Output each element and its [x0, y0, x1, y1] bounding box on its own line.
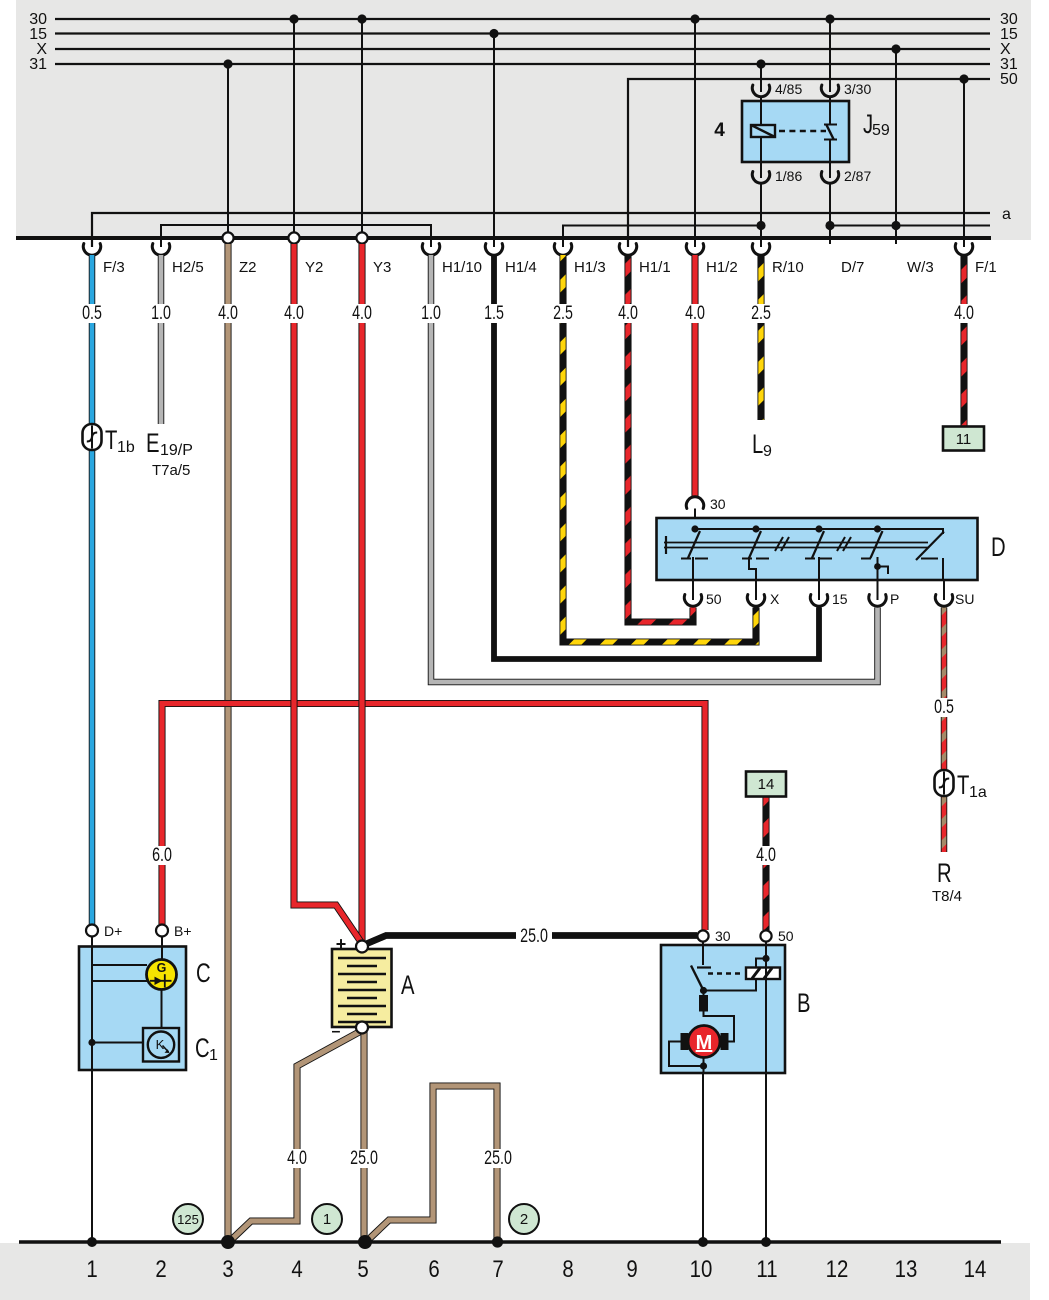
connector H1/4 at harness line — [485, 244, 502, 256]
C internal G to regulator lead — [161, 990, 163, 1029]
label gauge 4.0 at x294 — [281, 304, 308, 323]
D lead to cup P with park hook — [874, 557, 888, 580]
relay pin 3/30 connector — [821, 85, 838, 97]
label gauge 4.0 at x695 — [682, 304, 709, 323]
label gauge 4.0 at x362 — [349, 304, 376, 323]
wire battery - brown 4.0 to ground 3 — [230, 1031, 361, 1241]
svg-text:4.0: 4.0 — [618, 302, 638, 323]
svg-text:31: 31 — [29, 56, 47, 73]
svg-text:Z2: Z2 — [239, 259, 257, 276]
svg-text:T: T — [105, 425, 118, 456]
ground junction track 1 — [87, 1237, 97, 1247]
wire W/3 drop from bus X — [895, 49, 897, 244]
battery A plates — [338, 958, 386, 1022]
svg-text:9: 9 — [763, 443, 772, 460]
connector H1/3 at harness line — [554, 244, 571, 256]
svg-text:D: D — [991, 532, 1006, 563]
D terminal 15 connector — [810, 595, 827, 607]
label gauge 25.0 battery cable — [516, 927, 552, 946]
D detent marks 1 — [775, 537, 789, 551]
battery - terminal — [356, 1022, 368, 1034]
wire H2/5 gray 1.0 — [158, 255, 165, 424]
D contact dashes 50 — [681, 558, 708, 560]
wire H1/2 red 4.0 to D-30 — [691, 255, 698, 497]
svg-text:–: – — [332, 1023, 341, 1040]
D detent marks 2 — [837, 537, 851, 551]
svg-text:4.0: 4.0 — [284, 302, 304, 323]
connector H1/10 at harness line — [422, 244, 439, 256]
svg-text:W/3: W/3 — [907, 259, 934, 276]
wire relay 1/86 down to bus cup — [760, 184, 762, 248]
B internal resistor — [699, 991, 708, 1012]
wire B-50 ground lead — [765, 1073, 767, 1242]
D contact blade P — [871, 531, 883, 558]
svg-text:D/7: D/7 — [841, 259, 864, 276]
connector T1b symbol — [83, 424, 102, 450]
fuse box 11 — [943, 427, 984, 451]
label gauge 6.0 at x162 — [149, 846, 176, 865]
junction 4/85 on 31 — [756, 59, 765, 68]
svg-text:C: C — [196, 958, 211, 989]
svg-text:25.0: 25.0 — [484, 1147, 512, 1168]
svg-text:1: 1 — [323, 1211, 331, 1228]
svg-text:30: 30 — [715, 928, 731, 944]
wire Y3 drop from bus 30 — [361, 19, 363, 234]
svg-text:T: T — [957, 770, 970, 801]
ignition switch D box — [657, 518, 978, 580]
wire H1/3 black/yellow 2.5 to D-X — [563, 255, 756, 642]
B internal 50 to coil — [756, 959, 766, 968]
wire battery + to B-30 black 25.0 — [366, 936, 697, 945]
svg-text:4.0: 4.0 — [954, 302, 974, 323]
label gauge 0.5 at x944 — [931, 698, 958, 717]
svg-text:R: R — [937, 858, 952, 889]
wire D/7 drop from bus 30 to relay 3/30 — [829, 19, 831, 92]
ground junction track 3 — [221, 1235, 235, 1249]
svg-text:13: 13 — [895, 1255, 918, 1282]
svg-text:H1/2: H1/2 — [706, 259, 738, 276]
svg-text:4.0: 4.0 — [756, 844, 776, 865]
D internal supply bus — [695, 529, 943, 534]
B dashed actuator link — [708, 972, 744, 974]
svg-text:4.0: 4.0 — [287, 1147, 307, 1168]
junction H1/4 on 15 — [489, 29, 498, 38]
label E19/P — [146, 428, 193, 459]
D terminal P connector — [869, 595, 886, 607]
wire battery - brown 25.0 to ground 5 — [360, 1032, 367, 1240]
label gauge 2.5 at x761 — [748, 304, 775, 323]
label gauge 4.0 at x228 — [215, 304, 242, 323]
B internal 50 node — [762, 955, 769, 962]
svg-text:1.5: 1.5 — [484, 302, 504, 323]
bus line 31 — [55, 63, 990, 65]
D lead to cup X — [749, 557, 756, 580]
junction W/3 on link — [891, 221, 900, 230]
bus line 15 — [55, 32, 990, 34]
junction D/7 on link — [825, 221, 834, 230]
connector R/10 at harness line — [752, 244, 769, 256]
svg-text:30: 30 — [710, 496, 726, 512]
svg-text:7: 7 — [492, 1255, 503, 1282]
wire 14 to B-50 black/red 4.0 — [762, 796, 769, 930]
svg-text:2: 2 — [520, 1211, 528, 1228]
wire Y2 red 4.0 — [294, 244, 361, 942]
svg-text:+: + — [336, 934, 347, 954]
wire H2/5 to H1/10 link — [161, 225, 431, 247]
svg-text:6.0: 6.0 — [152, 844, 172, 865]
D terminal SU connector — [935, 595, 952, 607]
wire relay 1/86 from box — [760, 162, 762, 178]
svg-text:0.5: 0.5 — [934, 696, 954, 717]
wire relay 3/30 to switch — [829, 97, 831, 102]
C internal B+ lead — [161, 937, 163, 960]
wire B+ to B-30 red 6.0 — [162, 704, 705, 931]
wire relay 4/85 to coil — [760, 97, 762, 102]
wire ground strap brown 25.0 track 5 to 7 — [367, 1086, 497, 1241]
relay J59 coil symbol — [751, 125, 775, 137]
battery + terminal — [356, 941, 368, 953]
B internal switch — [691, 966, 711, 991]
svg-text:M: M — [696, 1032, 713, 1054]
ground rail — [19, 1240, 1001, 1244]
svg-text:2/87: 2/87 — [844, 168, 871, 184]
ground designation 125 — [173, 1204, 203, 1234]
svg-text:50: 50 — [706, 591, 722, 607]
D internal node 15 — [815, 525, 822, 532]
label gauge 1.5 at x494 — [481, 304, 508, 323]
relay pin 4/85 connector — [752, 85, 769, 97]
C internal node — [88, 1039, 95, 1046]
svg-text:25.0: 25.0 — [350, 1147, 378, 1168]
D contact blade X — [749, 531, 761, 558]
terminal Z2 pass-through — [222, 232, 233, 243]
svg-text:E: E — [146, 428, 160, 459]
svg-text:11: 11 — [756, 1255, 777, 1282]
svg-text:1/86: 1/86 — [775, 168, 802, 184]
D contact dashes 15 — [805, 558, 832, 560]
svg-text:H1/10: H1/10 — [442, 259, 482, 276]
junction Z2 on 31 — [223, 59, 232, 68]
svg-text:11: 11 — [956, 431, 972, 448]
main harness line (bottom of gray panel) — [16, 236, 991, 240]
bottom gray band (track number strip) — [0, 1243, 1030, 1300]
relay pin 2/87 connector — [821, 172, 838, 184]
svg-text:125: 125 — [177, 1212, 199, 1227]
svg-text:2: 2 — [155, 1255, 166, 1282]
B internal motor ground lead — [703, 1058, 705, 1074]
wire D/7-W/3 link to right edge — [830, 225, 990, 227]
D mechanical bar — [664, 536, 928, 554]
label gauge 1.0 at x431 — [418, 304, 445, 323]
wire H1/1 red/black 4.0 to D-50 — [628, 255, 693, 622]
wire B motor ground lead — [702, 1073, 704, 1242]
svg-text:X: X — [770, 591, 780, 607]
wire H1/4 black 1.5 to D-15 — [494, 255, 819, 659]
relay J59 switch — [824, 101, 837, 162]
bus line 50 (from H1/1 rise to right edge) — [628, 79, 990, 247]
fuse box 14 — [746, 772, 786, 797]
svg-text:14: 14 — [964, 1255, 987, 1282]
D contact dash P — [861, 558, 871, 560]
D contact blade SU — [916, 532, 944, 561]
junction Y2 on 30 — [289, 14, 298, 23]
C internal branch to G lower — [92, 980, 149, 982]
D terminal 30 connector — [686, 497, 703, 509]
wire H1/2 drop from bus 30 — [694, 19, 696, 247]
svg-text:H1/4: H1/4 — [505, 259, 537, 276]
svg-text:1: 1 — [209, 1047, 218, 1064]
label T1b — [105, 425, 135, 456]
svg-text:4.0: 4.0 — [352, 302, 372, 323]
junction 3/30 on 30 — [825, 14, 834, 23]
svg-text:1.0: 1.0 — [151, 302, 171, 323]
svg-text:L: L — [752, 429, 763, 460]
D terminal X connector — [747, 595, 764, 607]
svg-text:4: 4 — [714, 120, 725, 141]
svg-text:9: 9 — [626, 1255, 637, 1282]
wire Y2 drop from bus 30 — [293, 19, 295, 234]
D terminal 50 connector — [684, 595, 701, 607]
label gauge 4.0 at x628 — [615, 304, 642, 323]
svg-text:2.5: 2.5 — [553, 302, 573, 323]
C internal D+ lead — [91, 937, 93, 1071]
B motor M — [688, 1026, 720, 1058]
connector F/3 at harness line — [83, 244, 100, 256]
svg-text:4.0: 4.0 — [218, 302, 238, 323]
svg-text:14: 14 — [758, 776, 775, 793]
wire F/1 drop from bus 50 — [963, 79, 965, 247]
battery A box — [332, 949, 392, 1027]
B internal 50 lead — [765, 942, 767, 1074]
svg-text:4/85: 4/85 — [775, 81, 802, 97]
junction R/10 on link a' — [756, 221, 765, 230]
svg-text:a: a — [1002, 206, 1011, 223]
svg-text:H1/3: H1/3 — [574, 259, 606, 276]
ground junction track 10 — [698, 1237, 708, 1247]
wire relay 2/87 down past harness line — [829, 184, 831, 245]
svg-text:10: 10 — [690, 1255, 713, 1282]
wire Z2 drop from bus 31 — [227, 64, 229, 234]
D contact blade 15 — [812, 531, 824, 558]
B internal resistor to motor — [704, 1012, 735, 1042]
relay J59 coil wire — [760, 101, 762, 162]
C terminal B+ — [156, 925, 168, 937]
svg-text:12: 12 — [826, 1255, 849, 1282]
label gauge 2.5 at x563 — [550, 304, 577, 323]
svg-text:15: 15 — [832, 591, 848, 607]
svg-text:B+: B+ — [174, 923, 192, 939]
ground junction track 7 — [492, 1236, 503, 1247]
D contact dashes X — [742, 558, 769, 560]
label component C1 — [195, 1033, 218, 1064]
svg-text:C: C — [195, 1033, 210, 1064]
svg-text:K: K — [156, 1037, 165, 1052]
ground junction track 5 — [358, 1235, 372, 1249]
svg-text:3/30: 3/30 — [844, 81, 871, 97]
junction Y3 on 30 — [357, 14, 366, 23]
D internal node 30 — [691, 525, 698, 532]
svg-text:F/3: F/3 — [103, 259, 125, 276]
svg-text:2.5: 2.5 — [751, 302, 771, 323]
label gauge 4.0 at x964 — [951, 304, 978, 323]
relay J59 dashed actuator link — [779, 130, 826, 133]
wire Y3 red 4.0 — [358, 244, 365, 941]
D contact dash SU — [921, 558, 938, 560]
D lead to cup SU — [943, 558, 944, 580]
B terminal 50 — [760, 930, 771, 941]
svg-text:G: G — [157, 961, 167, 975]
svg-text:SU: SU — [955, 591, 974, 607]
alternator C box — [79, 947, 186, 1071]
svg-text:T8/4: T8/4 — [932, 888, 962, 905]
svg-text:1b: 1b — [117, 439, 135, 456]
label gauge 25.0 at x498 — [480, 1149, 516, 1168]
junction W/3 on X — [891, 44, 900, 53]
C internal branch to G upper — [92, 964, 147, 966]
label gauge 4.0 at x766 — [753, 846, 780, 865]
label T1a — [957, 770, 987, 801]
svg-text:1.0: 1.0 — [421, 302, 441, 323]
label gauge 25.0 at x364 — [346, 1149, 382, 1168]
D terminal 30 lead — [694, 509, 696, 519]
bus line a (from F/3 rise to right edge) — [92, 213, 990, 247]
D lead to cup 50 — [692, 557, 694, 580]
svg-text:H2/5: H2/5 — [172, 259, 204, 276]
svg-text:Y2: Y2 — [305, 259, 323, 276]
svg-text:F/1: F/1 — [975, 259, 997, 276]
junction F/1 on 50 — [959, 74, 968, 83]
label gauge 0.5 at x92 — [79, 304, 106, 323]
svg-text:B: B — [797, 988, 811, 1019]
B internal coil to node — [704, 979, 757, 990]
bus line X — [55, 48, 990, 50]
svg-text:3: 3 — [222, 1255, 233, 1282]
wire D-SU red/brown 0.5 to R — [941, 608, 948, 853]
svg-text:H1/1: H1/1 — [639, 259, 671, 276]
terminal Y3 pass-through — [356, 232, 367, 243]
D internal node P — [874, 525, 881, 532]
wire H1/3 to R/10 link — [563, 226, 761, 248]
junction H1/2 on 30 — [690, 14, 699, 23]
svg-text:T7a/5: T7a/5 — [152, 462, 190, 479]
label gauge 4.0 at x297 — [284, 1149, 311, 1168]
svg-text:59: 59 — [872, 122, 890, 139]
connector F/1 at harness line — [955, 244, 972, 256]
svg-text:5: 5 — [357, 1255, 368, 1282]
svg-text:Y3: Y3 — [373, 259, 391, 276]
wire F/1 red/black 4.0 to fuse 11 — [960, 255, 967, 427]
wire Z2 brown 4.0 — [224, 244, 231, 1240]
relay J59 box — [742, 101, 849, 162]
connector H1/2 at harness line — [686, 244, 703, 256]
wire C ground lead — [91, 1070, 93, 1242]
svg-text:D+: D+ — [104, 923, 122, 939]
D lead to cup 15 — [818, 557, 820, 580]
ground junction track 11 — [761, 1237, 771, 1247]
B internal ground node — [700, 1062, 707, 1069]
label relay J59 — [863, 109, 890, 140]
wire H1/10 gray 1.0 to D-P — [431, 255, 878, 682]
svg-text:0.5: 0.5 — [82, 302, 102, 323]
wire H1/4 drop from bus 15 — [493, 34, 495, 248]
relay pin 1/86 connector — [752, 172, 769, 184]
label L9 — [752, 429, 772, 460]
svg-text:50: 50 — [1000, 71, 1018, 88]
bus line 30 — [55, 18, 990, 20]
ground designation 1 — [312, 1204, 342, 1234]
terminal Y2 pass-through — [288, 232, 299, 243]
C internal branch to regulator — [92, 1042, 143, 1044]
B internal node — [700, 987, 707, 994]
ground designation 2 — [509, 1204, 539, 1234]
wire R/10 black/yellow 2.5 to L9 — [757, 255, 764, 420]
connector T1a symbol — [935, 770, 954, 796]
svg-text:25.0: 25.0 — [520, 925, 548, 946]
connector H2/5 at harness line — [152, 244, 169, 256]
svg-text:1: 1 — [86, 1255, 97, 1282]
C regulator C1 symbol — [143, 1028, 179, 1062]
starter B box — [661, 945, 785, 1073]
svg-text:50: 50 — [778, 928, 794, 944]
B motor brushes — [681, 1033, 729, 1050]
C generator symbol G — [147, 960, 177, 990]
wire relay 2/87 from box — [829, 162, 831, 178]
svg-text:A: A — [401, 970, 415, 1001]
svg-text:R/10: R/10 — [772, 259, 804, 276]
wire F/3 blue 0.5 — [89, 255, 96, 924]
B internal brush loop — [669, 1042, 704, 1067]
svg-text:4: 4 — [291, 1255, 302, 1282]
D bottom leads into cups — [693, 580, 944, 600]
svg-text:19/P: 19/P — [160, 442, 193, 459]
svg-text:6: 6 — [428, 1255, 439, 1282]
svg-text:4.0: 4.0 — [685, 302, 705, 323]
connector H1/1 at harness line — [619, 244, 636, 256]
wire R/10 drop from bus 31 to relay 4/85 — [760, 64, 762, 92]
D internal node 50 — [752, 525, 759, 532]
C terminal D+ — [86, 925, 98, 937]
svg-text:1a: 1a — [969, 784, 987, 801]
top gray panel (current track area) — [16, 0, 1031, 240]
D contact blade 50 — [688, 531, 700, 558]
B solenoid coil — [746, 968, 780, 980]
label gauge 1.0 at x161 — [148, 304, 175, 323]
B internal 30 lead — [702, 942, 704, 966]
svg-text:P: P — [890, 591, 899, 607]
B terminal 30 — [697, 930, 708, 941]
svg-text:8: 8 — [562, 1255, 573, 1282]
